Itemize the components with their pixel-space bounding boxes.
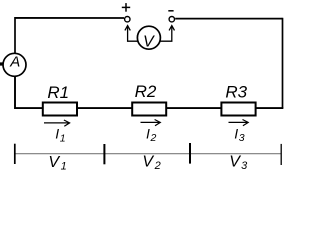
resistor R3 (221, 103, 255, 116)
svg-text:R2: R2 (135, 82, 157, 101)
terminal + (left binding post) (125, 17, 130, 22)
wire top-left run from left terminal to top-left corner and down to ammeter (15, 18, 124, 54)
terminal - (right binding post) (169, 17, 174, 22)
wire between R3 and right corner (256, 107, 283, 109)
label - (168, 10, 173, 12)
svg-text:R1: R1 (47, 83, 69, 102)
resistor R2 (132, 103, 166, 116)
wire below ammeter down and right to R1 (15, 76, 43, 108)
ammeter A1 circle (3, 53, 26, 76)
voltage dimension line (15, 153, 282, 155)
wire right vertical down to R3 row (282, 18, 284, 109)
svg-text:A: A (9, 53, 20, 70)
voltmeter left lead with up arrow to + terminal (125, 26, 138, 42)
resistor R1 (43, 103, 77, 116)
svg-text:R3: R3 (225, 83, 247, 102)
current arrow I2 (141, 120, 161, 126)
svg-text:V: V (143, 33, 155, 50)
tick left end (14, 144, 16, 164)
label + (122, 3, 130, 12)
wire between R2 and R3 (167, 107, 221, 109)
tick between V1 and V2 (103, 144, 105, 164)
voltmeter V1 circle (137, 26, 160, 49)
tick right end (280, 144, 282, 165)
ammeter left pointer mark (0, 62, 4, 65)
wire between R1 and R2 (78, 107, 132, 109)
tick between V2 and V3 (189, 143, 191, 164)
current arrow I3 (229, 120, 249, 126)
wire top-right run from right terminal to top-right corner (175, 18, 282, 20)
current arrow I1 (44, 120, 70, 126)
voltmeter right lead with up arrow to - terminal (160, 26, 175, 42)
